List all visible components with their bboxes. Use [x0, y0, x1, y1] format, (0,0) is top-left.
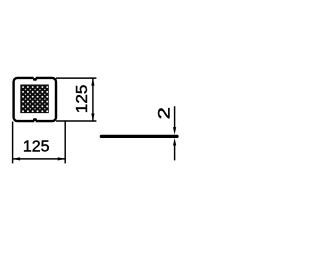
horizontal dimension 125: right extension line	[64, 120, 66, 163]
grate holes: offset 5x5 grid	[25, 89, 46, 110]
plan view: top edge notch (white slit)	[34, 75, 36, 78]
horizontal dimension 125: left arrowhead	[13, 157, 21, 160]
thickness dimension 2: lower arrowhead (pointing up)	[173, 138, 176, 146]
vertical dimension 125: dimension line	[92, 78, 94, 121]
vertical dimension 125: top extension line	[56, 77, 96, 79]
horizontal dimension 125: left extension line	[12, 122, 14, 164]
grate holes: main 6x6 grid	[22, 86, 48, 112]
horizontal dimension 125: right arrowhead	[58, 157, 65, 160]
plan view: cover outline (rounded square)	[14, 78, 56, 121]
thickness dimension 2: upper arrowhead (pointing down)	[173, 127, 176, 135]
horizontal dimension 125: dimension line	[13, 158, 66, 160]
plan view: bottom edge notch (white slit)	[34, 121, 35, 123]
svg-text:125: 125	[74, 84, 91, 113]
plan view: bottom clip tab	[33, 118, 37, 121]
vertical dimension 125: top arrowhead	[91, 78, 94, 86]
vertical dimension 125: bottom extension line	[56, 120, 96, 122]
svg-text:2: 2	[154, 107, 173, 119]
svg-text:125: 125	[23, 139, 50, 156]
side view: cover profile bar	[100, 135, 179, 138]
plan view: top clip tab	[33, 78, 37, 81]
thickness dimension 2: lower leader line	[174, 144, 176, 161]
plan view: grate (perforated square)	[20, 85, 49, 114]
thickness dimension 2: upper leader line	[174, 106, 176, 129]
vertical dimension 125: bottom arrowhead	[91, 114, 94, 122]
